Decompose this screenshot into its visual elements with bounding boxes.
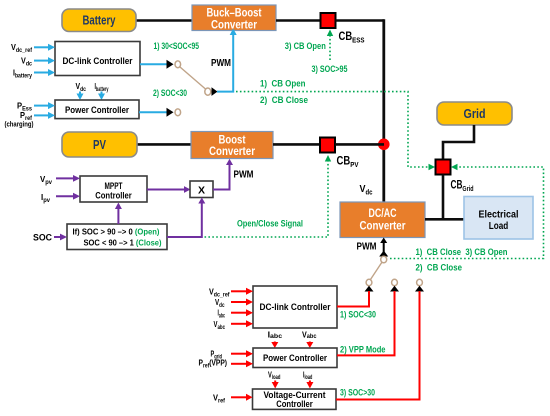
svg-text:Vdc: Vdc [360, 183, 373, 197]
svg-text:2) CB Close: 2) CB Close [416, 263, 463, 273]
circuit breaker CB_PV [320, 138, 335, 153]
svg-text:CBGrid: CBGrid [451, 180, 474, 194]
wire dc-link output to switch contact 1 [140, 63, 167, 65]
wire Ibattery arrow [34, 72, 49, 74]
wire Pref red arrow [231, 363, 247, 365]
wire CB_ESS to corner [336, 19, 385, 22]
wire v-c output to contact 3 [336, 291, 420, 400]
wire PV to boost [137, 143, 192, 146]
svg-text:2) SOC<30: 2) SOC<30 [153, 88, 187, 98]
wire Ibattery down arrow [101, 92, 103, 95]
wire SOC arrow [54, 236, 61, 238]
electrical load [464, 197, 533, 240]
wire CB_PV to node [335, 143, 384, 146]
svg-text:Vpv: Vpv [40, 175, 53, 186]
dc-link controller (top) [55, 42, 140, 76]
svg-text:Load: Load [489, 220, 509, 232]
dc-link controller (bottom) [253, 286, 337, 328]
svg-text:Open/Close Signal: Open/Close Signal [237, 219, 303, 229]
circuit breaker CB_Grid [436, 160, 451, 175]
svg-text:Power Controller: Power Controller [65, 104, 129, 115]
PV block [62, 132, 137, 157]
wire Iabc down arrow [274, 342, 276, 344]
wire Iload down arrow [309, 381, 311, 384]
wire Vdc_ref arrow [34, 46, 49, 48]
svg-text:DC/AC: DC/AC [369, 207, 397, 220]
wire MPPT to X [147, 189, 185, 191]
switch pole circle [205, 88, 211, 95]
svg-text:1) 30<SOC<95: 1) 30<SOC<95 [154, 41, 200, 51]
svg-text:2) CB Close: 2) CB Close [260, 95, 308, 105]
svg-text:CBESS: CBESS [339, 31, 365, 45]
bottom switch pole circle [381, 256, 387, 263]
power controller (bottom) [253, 348, 337, 368]
battery block [62, 9, 136, 32]
wire grid to CB_Grid [443, 125, 474, 160]
svg-text:CBPV: CBPV [337, 156, 359, 170]
svg-text:Battery: Battery [83, 14, 116, 28]
wire Iabc red arrow [231, 312, 247, 314]
switch contact 2 circle [175, 109, 181, 116]
svg-text:3) SOC>95: 3) SOC>95 [312, 64, 348, 74]
MPPT controller [80, 176, 147, 202]
svg-text:Vref: Vref [213, 393, 226, 404]
circuit breaker CB_ESS [321, 13, 336, 28]
wire SOC box to MPPT [117, 208, 119, 224]
svg-text:X: X [198, 185, 205, 197]
green dashed CB_ESS signal [329, 34, 331, 61]
svg-text:2) VPP Mode: 2) VPP Mode [340, 345, 386, 355]
svg-text:Converter: Converter [360, 220, 406, 233]
voltage-current controller [253, 389, 337, 409]
grid block [437, 102, 512, 125]
wire dc-link output to contact 1 [337, 291, 369, 307]
svg-text:Converter: Converter [211, 19, 257, 32]
svg-text:Controller: Controller [276, 399, 313, 409]
wire Vpv arrow [56, 177, 74, 179]
wire CB_Grid to load line [442, 175, 445, 221]
svg-text:Vabc: Vabc [302, 331, 317, 341]
svg-text:Vdc: Vdc [21, 57, 33, 68]
boost converter U2 [191, 132, 273, 159]
green dashed pole to CB_Grid right [390, 167, 544, 259]
svg-text:Vdc_ref: Vdc_ref [11, 43, 33, 54]
svg-text:Iload: Iload [303, 371, 313, 382]
bottom contact circle 2 [392, 279, 398, 285]
bottom switch pole chevron [379, 251, 388, 257]
pole chevron [212, 87, 218, 96]
svg-text:Ibattery: Ibattery [95, 82, 109, 93]
dc/ac converter U3 [340, 202, 425, 238]
svg-text:DC-link Controller: DC-link Controller [260, 301, 331, 312]
wire Vabc down arrow [309, 342, 311, 344]
wire Ipv arrow [56, 195, 74, 197]
wire Vabc red arrow [231, 323, 247, 325]
wire boost to CB_PV [273, 143, 320, 146]
PWM arrow into dc/ac [383, 242, 385, 256]
svg-text:3) SOC>30: 3) SOC>30 [340, 388, 375, 398]
bottom switch blade [370, 262, 382, 279]
svg-text:1) CB Open: 1) CB Open [260, 79, 306, 89]
svg-text:1) SOC<30: 1) SOC<30 [340, 310, 376, 320]
wire Vdc_ref red arrow [231, 290, 247, 292]
wire dc/ac to load [425, 218, 464, 221]
svg-text:PWM: PWM [234, 170, 254, 181]
svg-text:Vabc: Vabc [214, 320, 226, 331]
wire buck-boost to CB_ESS [276, 19, 320, 22]
wire X to boost PWM [213, 164, 230, 190]
contact chevron 2 [167, 108, 174, 117]
svg-text:If) SOC > 90 –> 0 (Open): If) SOC > 90 –> 0 (Open) [73, 228, 160, 237]
wire Vdc arrow [34, 60, 49, 62]
svg-text:DC-link Controller: DC-link Controller [63, 55, 133, 66]
wire Vdc red arrow [231, 301, 247, 303]
svg-text:3) CB Open: 3) CB Open [285, 41, 326, 51]
wire Vload down arrow [274, 381, 276, 384]
wire Vdc down arrow [79, 92, 81, 95]
svg-text:Vload: Vload [268, 371, 281, 382]
svg-text:Iabc: Iabc [268, 331, 283, 341]
contact chevron arrows [365, 286, 374, 292]
svg-text:Converter: Converter [209, 145, 255, 158]
wire P_ref arrow [34, 114, 49, 116]
svg-text:PV: PV [93, 138, 107, 152]
wire dc bus vertical [382, 19, 385, 202]
svg-text:Electrical: Electrical [479, 209, 519, 221]
svg-text:Grid: Grid [464, 107, 486, 121]
contact chevron 1 [167, 60, 174, 69]
svg-text:PWM: PWM [357, 242, 377, 253]
svg-text:Ipv: Ipv [41, 193, 51, 204]
wire power output to contact 2 [337, 291, 395, 355]
svg-text:1) CB Close 3) CB Open: 1) CB Close 3) CB Open [416, 247, 508, 257]
green dashed pole to CB_Grid left [236, 92, 429, 167]
svg-text:Ibattery: Ibattery [13, 69, 33, 80]
svg-text:(charging): (charging) [5, 120, 34, 129]
svg-text:SOC < 90 –> 1 (Close): SOC < 90 –> 1 (Close) [84, 239, 162, 248]
svg-text:Power Controller: Power Controller [263, 352, 327, 363]
svg-text:Vdc: Vdc [76, 82, 87, 93]
svg-text:Vdc: Vdc [215, 298, 225, 309]
svg-text:Vdc_ref: Vdc_ref [209, 287, 230, 298]
wire battery to buck-boost [136, 19, 194, 22]
bottom contact circle 1 [366, 279, 372, 285]
power controller (top) [55, 100, 139, 119]
wire SOC box to X [167, 203, 202, 238]
svg-text:Controller: Controller [95, 190, 132, 201]
bottom contact circle 3 [417, 279, 423, 285]
switch contact 1 circle [175, 61, 181, 68]
green dashed open/close to CB_PV [205, 160, 329, 237]
svg-text:Pref(VPP): Pref(VPP) [199, 359, 228, 370]
switch blade [180, 67, 206, 89]
wire Vref red arrow [231, 396, 247, 398]
wire P_Ess arrow [34, 105, 49, 107]
svg-text:SOC: SOC [33, 233, 52, 243]
wire power controller output [139, 111, 167, 113]
svg-text:PWM: PWM [211, 58, 231, 69]
multiplier X [190, 181, 213, 198]
wire Pgrid red arrow [231, 353, 247, 355]
node junction red dot [378, 139, 390, 151]
wire pole to PWM buck-boost [217, 34, 233, 92]
SOC logic box [67, 224, 167, 250]
svg-text:Iabc: Iabc [218, 309, 226, 320]
buck-boost converter U1 [192, 5, 276, 32]
